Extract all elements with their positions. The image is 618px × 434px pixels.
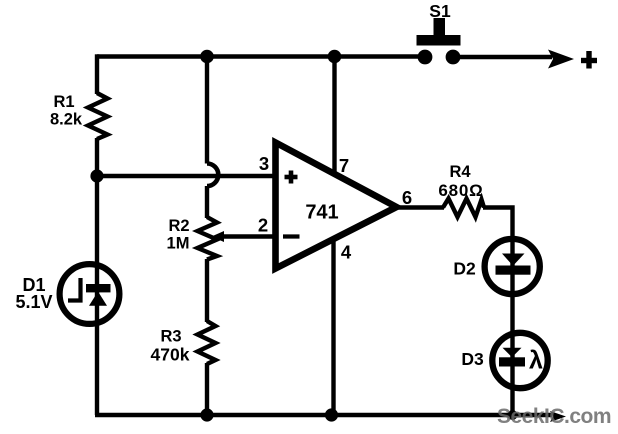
svg-text:R4: R4 [449, 163, 471, 181]
svg-text:3: 3 [259, 153, 269, 174]
wire hop over pin3 wire [207, 164, 218, 187]
wire bottom rail [95, 413, 552, 417]
wire between D2 and D3 [510, 294, 514, 336]
diode D3 circle [492, 333, 547, 388]
zener diode D1 step glyph [68, 278, 81, 301]
zener diode D1 circle [60, 264, 120, 324]
switch S1 pushbutton actuator [434, 18, 446, 37]
diode D2 triangle [502, 254, 525, 266]
+ supply symbol [581, 51, 597, 69]
wiper arrow of R2 to pin 2 [212, 231, 225, 242]
zener diode D1 triangle [89, 292, 107, 306]
diode D3 triangle [503, 348, 522, 357]
svg-text:D2: D2 [453, 259, 476, 279]
op-amp + input marking [285, 171, 298, 184]
svg-text:D3: D3 [461, 349, 484, 369]
wire from R4 to corner and down to D2 [483, 208, 513, 240]
switch S1 left contact [418, 50, 433, 65]
wire middle rail from hop to R2 [205, 186, 209, 218]
wire pin 7 from top rail to op-amp [332, 57, 336, 173]
diode D3 cathode bar [499, 357, 525, 366]
svg-text:4: 4 [341, 242, 352, 263]
arrow at bottom right [550, 411, 566, 422]
svg-text:741: 741 [305, 202, 338, 224]
wire pin2 from wiper arrow to op-amp [220, 234, 273, 238]
junction node bottom rail / middle rail [200, 408, 213, 421]
resistor R1 zigzag [88, 93, 108, 139]
wire top rail from left corner to S1 left contact [97, 54, 424, 58]
svg-text:7: 7 [339, 155, 349, 176]
junction node top rail / middle rail [200, 50, 214, 64]
resistor R3 zigzag [198, 321, 216, 364]
junction node bottom rail / pin4 rail [325, 408, 338, 421]
svg-text:1M: 1M [167, 235, 190, 253]
wire left rail below R1 down to bottom rail [95, 138, 99, 415]
switch S1 right contact [446, 50, 461, 65]
svg-text:R1: R1 [53, 93, 74, 111]
svg-text:R2: R2 [168, 217, 189, 235]
wire left rail top (above R1) [95, 54, 99, 94]
svg-text:6: 6 [402, 187, 412, 208]
wire middle rail from R3 to bottom rail [205, 363, 209, 415]
diode D3 wire through circle [510, 336, 514, 415]
wire from S1 right contact to arrow [453, 55, 552, 59]
wire pin3 horizontal from left rail to op-amp [97, 174, 273, 178]
wire pin 4 from op-amp to bottom rail [331, 240, 335, 415]
svg-text:8.2k: 8.2k [50, 111, 83, 129]
svg-text:2: 2 [258, 215, 268, 236]
wire middle rail from top rail to hop [205, 57, 209, 164]
diode D2 cathode bar [496, 266, 531, 275]
svg-text:470k: 470k [151, 345, 190, 365]
svg-text:5.1V: 5.1V [15, 292, 52, 312]
junction node bottom rail / D3 rail [508, 410, 518, 420]
diode D2 circle [485, 239, 540, 294]
svg-text:λ: λ [529, 347, 543, 375]
resistor R2 zigzag [198, 217, 218, 260]
diode D2 wire through circle [510, 239, 514, 294]
svg-text:SeekIC.com: SeekIC.com [497, 405, 611, 428]
zener diode D1 cathode bar [86, 284, 111, 292]
resistor R4 zigzag [443, 199, 484, 218]
svg-text:R3: R3 [160, 328, 181, 346]
svg-text:680Ω: 680Ω [438, 181, 483, 200]
arrow to + supply [548, 50, 574, 69]
op-amp U1 741 triangle [276, 143, 397, 269]
wire output pin6 to R4 [396, 205, 444, 209]
junction node top rail / pin7 rail [328, 50, 342, 64]
junction node left rail / pin3 wire [90, 169, 103, 182]
wire middle rail between R2 and R3 [205, 259, 209, 322]
op-amp - input marking [283, 234, 300, 238]
